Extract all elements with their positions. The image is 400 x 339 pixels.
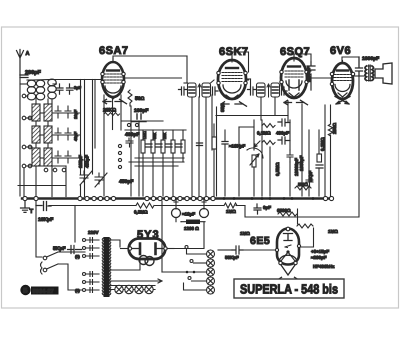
svg-text:6μF: 6μF [263, 205, 271, 210]
volume pot [247, 148, 263, 158]
svg-text:6SA7: 6SA7 [99, 45, 129, 57]
svg-text:1200 Ω: 1200 Ω [184, 226, 199, 231]
svg-text:25K: 25K [163, 132, 167, 139]
wire 6V6 plate up to output cap [342, 57, 359, 62]
IF transformer 2 [246, 79, 287, 120]
svg-text:6E5: 6E5 [250, 235, 270, 247]
wire left rail [18, 185, 66, 187]
svg-text:40pF: 40pF [73, 131, 78, 141]
resistor 1200 ohm [186, 220, 200, 225]
resistor 1M series [224, 203, 237, 208]
svg-text:SUPERLA - 548 bis: SUPERLA - 548 bis [240, 282, 338, 297]
svg-text:1MΩ: 1MΩ [328, 229, 338, 234]
svg-text:≈10KpF: ≈10KpF [229, 144, 245, 149]
wire branch to 5KpF [74, 206, 76, 243]
resistor 50 ohm [128, 90, 132, 106]
svg-text:≈200pF: ≈200pF [311, 255, 327, 260]
wire 6SK7 top cap [232, 52, 249, 72]
electrolytic 2 [200, 209, 209, 218]
svg-text:450pF: 450pF [85, 155, 90, 168]
tuning gang verticals [81, 80, 96, 197]
svg-text:6SQ7: 6SQ7 [280, 46, 310, 58]
capacitor 50KpF [232, 246, 243, 254]
svg-text:0,1MΩ: 0,1MΩ [320, 137, 325, 151]
capacitor 460pF row1 [278, 119, 290, 126]
svg-text:50KpF: 50KpF [225, 255, 239, 260]
svg-text:(0): (0) [75, 254, 81, 259]
component cluster mid (osc padder block) [118, 121, 186, 196]
svg-text:460pF: 460pF [276, 131, 289, 136]
trimmer 2 450pF [95, 173, 107, 187]
svg-text:50Ω: 50Ω [135, 96, 145, 102]
svg-text:6V6: 6V6 [330, 45, 351, 57]
wire bus to switch [36, 201, 42, 257]
coil bank terminals [22, 94, 66, 172]
resistor 0,1M row1 [262, 124, 275, 128]
cap 6000pF vertical [307, 62, 315, 90]
svg-text:0,2MΩ: 0,2MΩ [134, 210, 148, 215]
heater wires + arrow [110, 260, 162, 286]
electrolytic 18uF [172, 209, 181, 218]
svg-text:125pF: 125pF [78, 155, 83, 168]
power transformer [102, 237, 111, 297]
svg-text:400pF: 400pF [125, 132, 139, 138]
coil bank row1 (antenna coils, air-core) [27, 79, 56, 100]
dial lamp chain [162, 246, 215, 295]
svg-text:5934-27: 5934-27 [33, 288, 54, 295]
coil bank row3 [32, 126, 78, 143]
svg-text:(0): (0) [75, 288, 81, 293]
svg-text:10pF: 10pF [73, 109, 78, 119]
svg-text:5KpF: 5KpF [53, 246, 66, 252]
title box SUPERLA [234, 279, 344, 298]
svg-text:Ƃ: Ƃ [23, 288, 28, 295]
resistor 250 ohm [328, 124, 332, 136]
wires under 6SA7 [112, 98, 114, 130]
tube 6V6 [330, 45, 355, 104]
row1 caps [57, 84, 64, 94]
wire 6SQ7 plate to 6V6 [307, 77, 332, 79]
resistor 5M ohm top [295, 186, 311, 190]
wire 10KpF long branch [49, 205, 245, 207]
wire 6SQ7 top cap [294, 54, 311, 62]
svg-text:T: T [30, 208, 34, 215]
svg-text:1000pF: 1000pF [362, 56, 379, 62]
trimmer 1 [80, 171, 92, 185]
svg-text:220V: 220V [88, 230, 99, 235]
wire 6SK7 plate to IF2 [246, 79, 249, 81]
svg-text:1MΩ: 1MΩ [143, 131, 147, 139]
coil bank row4 [32, 148, 71, 166]
AVC diode network under 6SQ7 [216, 101, 325, 196]
svg-text:1MΩ: 1MΩ [240, 231, 250, 236]
capacitor 10KpF [36, 202, 51, 211]
svg-text:0,1MΩ: 0,1MΩ [257, 131, 271, 136]
resistor 0.2M [136, 203, 154, 208]
coil bank wiring [20, 80, 102, 197]
tube 6SK7 [217, 46, 249, 106]
primary taps [75, 230, 99, 293]
IF transformer 1 [179, 56, 219, 196]
svg-text:100pF: 100pF [134, 108, 148, 114]
ground T [21, 201, 30, 212]
wire bus to lamp chain [161, 201, 163, 272]
wire 5Y3 output [174, 222, 204, 249]
logo stamp [20, 285, 58, 295]
mains switch [41, 252, 86, 290]
svg-text:+3÷15pF: +3÷15pF [311, 249, 329, 254]
coil bank row2 [32, 104, 78, 121]
svg-text:1MΩ: 1MΩ [226, 209, 236, 214]
wire antenna down [19, 75, 21, 196]
svg-text:85Ω: 85Ω [220, 103, 225, 112]
capacitor 200pF [20, 75, 28, 78]
tube 6SA7 [99, 45, 129, 104]
pilot lamps row [110, 285, 155, 293]
antenna A [17, 50, 30, 76]
bus terminals [23, 196, 334, 200]
resistor 1M right of 6E5 [297, 224, 313, 228]
output transformer [353, 65, 374, 81]
tube 6SQ7 [280, 46, 310, 105]
cap 6uF [254, 204, 261, 214]
wires 6V6 right area down [245, 76, 359, 217]
speaker [375, 63, 392, 84]
tube 6E5 [250, 227, 302, 282]
svg-text:HF460kHz: HF460kHz [313, 264, 335, 269]
svg-text:A: A [26, 51, 30, 57]
svg-text:5MΩ: 5MΩ [298, 182, 308, 187]
svg-text:0,5MΩ: 0,5MΩ [275, 162, 280, 176]
components under 6SK7 [197, 107, 255, 196]
wire 6SA7 plate line [124, 77, 182, 79]
tube 5Y3 [121, 229, 175, 266]
main bus [22, 197, 330, 199]
svg-text:=18μF: =18μF [182, 212, 195, 217]
svg-text:50K: 50K [153, 132, 157, 139]
capacitor 1000pF [356, 57, 363, 76]
junction dots on bus [223, 197, 315, 200]
svg-text:10KpF: 10KpF [38, 217, 53, 223]
wire top cap 6SA7 to IF1 [113, 56, 187, 60]
row2 arrow + resistor + cap [254, 141, 260, 147]
